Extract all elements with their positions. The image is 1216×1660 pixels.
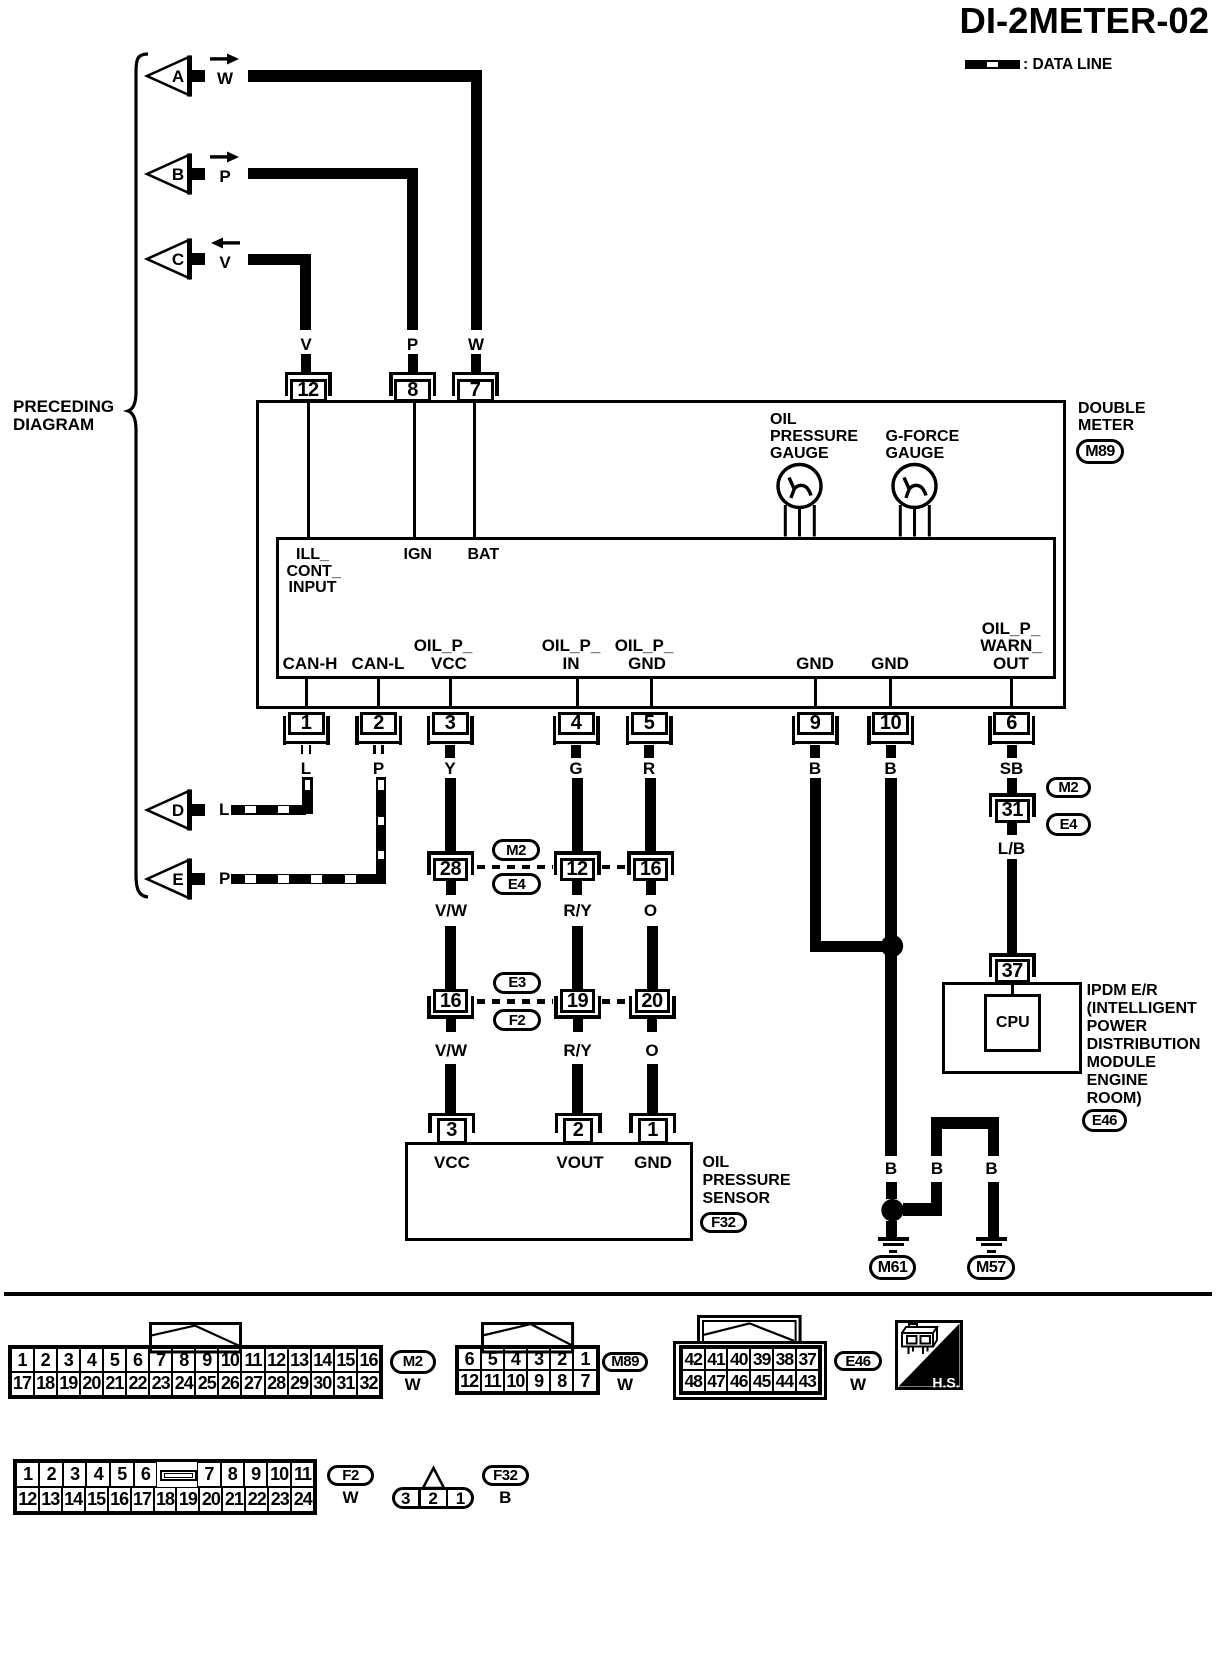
pin 2 of M89 (CAN-L) bbox=[0, 0, 1, 1]
IPDM E/R box E46 bbox=[942, 982, 1081, 1074]
wire color Y bbox=[444, 760, 455, 778]
label BAT bbox=[468, 546, 500, 563]
net OIL_P_GND bbox=[615, 637, 674, 655]
connector C (from preceding diagram) bbox=[145, 236, 209, 282]
title DI-2METER-02 bbox=[960, 1, 1209, 40]
connector face M2 (32 pin) bbox=[11, 1348, 381, 1395]
connector ref E46 bbox=[1082, 1109, 1128, 1132]
wire color B (pin 9) bbox=[809, 760, 821, 778]
wire color L at D bbox=[219, 801, 229, 819]
label PRECEDING DIAGRAM bbox=[13, 398, 114, 416]
wire color V/W bbox=[435, 902, 467, 920]
wire Y stub bbox=[445, 745, 455, 758]
label VOUT bbox=[556, 1154, 603, 1172]
wire V/W to sensor pin 3 bbox=[445, 1064, 456, 1113]
connector color W (M2) bbox=[405, 1376, 421, 1394]
pin 5 of M89 bbox=[0, 0, 1, 1]
svg-text:C: C bbox=[172, 250, 184, 269]
arrow B direction bbox=[210, 151, 240, 163]
pin 9 of M89 bbox=[0, 0, 1, 1]
wire color B bridge bbox=[931, 1160, 943, 1178]
wire color L bbox=[301, 760, 311, 778]
svg-text:E: E bbox=[172, 870, 183, 889]
pin 10 of M89 bbox=[0, 0, 1, 1]
wire color SB bbox=[1000, 760, 1024, 778]
lead IGN bbox=[413, 403, 416, 537]
wire color P bbox=[373, 760, 384, 778]
connector ref F32 bbox=[700, 1212, 748, 1234]
in-line connector pin 19 (E3/F2) bbox=[0, 0, 1, 1]
net GND (pin 9) bbox=[796, 655, 834, 673]
wire O to sensor pin 1 bbox=[647, 1064, 658, 1113]
pin 7 of M89 bbox=[0, 0, 1, 1]
pin 4 of M89 bbox=[0, 0, 1, 1]
wire B stub to junction 2 bbox=[886, 1182, 897, 1199]
wire color P above pin 8 bbox=[407, 336, 418, 354]
in-line connector pin 16 (M2/E4) bbox=[0, 0, 1, 1]
ground ref M61 bbox=[869, 1255, 917, 1280]
wire V stub into pin 12 bbox=[301, 354, 311, 372]
wire G pin4 to connector 12 bbox=[572, 778, 583, 851]
wire V from C to pin 12 bbox=[0, 0, 1, 1]
lead pin10 bbox=[889, 679, 892, 707]
wire R/Y stub below 12 bbox=[572, 881, 582, 895]
connector color W (F2) bbox=[342, 1489, 358, 1507]
wire R/Y to connector 19 (E3/F2) bbox=[572, 926, 583, 990]
wire color B at M57 bbox=[985, 1160, 997, 1178]
sensor pin 2 (F32) bbox=[0, 0, 1, 1]
wire color O bbox=[644, 902, 657, 920]
net OIL_P_VCC bbox=[414, 637, 473, 655]
lead BAT bbox=[473, 403, 476, 537]
connector ref E4 right bbox=[1046, 813, 1092, 836]
connector face E46 outer shell bbox=[673, 1341, 827, 1401]
svg-text:D: D bbox=[172, 801, 184, 820]
wire P from B to pin 8 bbox=[0, 0, 1, 1]
ground symbol M61 bbox=[0, 0, 1, 1]
dashed connector link row 1 left bbox=[0, 0, 1, 1]
wire color W at A bbox=[217, 70, 233, 88]
wire R/Y stub below 19 bbox=[573, 1019, 583, 1033]
connector ref M2 right bbox=[1046, 777, 1092, 799]
wire color W above pin 7 bbox=[468, 336, 484, 354]
connector ref F32 face bbox=[482, 1465, 529, 1486]
legend text bbox=[1023, 57, 1112, 74]
connector pin 37 of E46 bbox=[0, 0, 1, 1]
wire L (data line) pin 1 to D bbox=[0, 0, 1, 1]
wire Y pin3 to connector 28 bbox=[445, 778, 456, 851]
connector color W (M89) bbox=[617, 1376, 633, 1394]
wire color B above junction bbox=[885, 1160, 897, 1178]
double meter M89 inner unit box bbox=[276, 537, 1056, 679]
lead pin5 bbox=[650, 679, 653, 707]
wire L striped stub below pin 1 bbox=[0, 0, 1, 1]
net CAN-H bbox=[283, 655, 338, 673]
connector face E46 (42-48) bbox=[682, 1348, 819, 1392]
arrow C direction bbox=[210, 237, 240, 249]
wire O stub below 16 bbox=[646, 881, 656, 895]
net CAN-L bbox=[352, 655, 405, 673]
wire W stub into pin 7 bbox=[471, 354, 481, 372]
connector color W (E46) bbox=[850, 1376, 866, 1394]
connector color B (F32) bbox=[499, 1489, 511, 1507]
wire B bridge to ground M57 bbox=[0, 0, 1, 1]
wire B stub pin 10 bbox=[886, 745, 896, 758]
lead pin4 bbox=[576, 679, 579, 707]
wire B stub pin 9 bbox=[810, 745, 820, 758]
lead pin2 bbox=[377, 679, 380, 707]
connector ref F2 bbox=[493, 1009, 541, 1031]
connector face F32 (3 pin) bbox=[0, 0, 1, 1]
preceding diagram brace bbox=[120, 48, 160, 908]
dashed connector link row 2 left bbox=[0, 0, 1, 1]
lead 37 to CPU bbox=[1011, 985, 1014, 995]
label OIL PRESSURE GAUGE bbox=[770, 411, 797, 428]
wire SB to connector 31 bbox=[1007, 778, 1017, 793]
in-line connector pin 12 (M2/E4) bbox=[0, 0, 1, 1]
wire B pin 10 down bbox=[885, 778, 897, 1156]
pin 12 of M89 bbox=[0, 0, 1, 1]
wire O stub below 20 bbox=[647, 1019, 657, 1033]
wire B stub to ground M61 bbox=[886, 1221, 897, 1238]
connector A (from preceding diagram) bbox=[145, 53, 209, 99]
connector ref M2 face bbox=[390, 1350, 436, 1374]
connector face M89 (12 pin) bbox=[458, 1348, 597, 1392]
legend data line symbol bbox=[0, 0, 1, 1]
connector B (from preceding diagram) bbox=[145, 151, 209, 197]
net GND (pin 10) bbox=[871, 655, 909, 673]
wire P (data line) pin 2 to E bbox=[0, 0, 1, 1]
double meter M89 outer box bbox=[256, 400, 1066, 709]
lead pin3 bbox=[449, 679, 452, 707]
pin 6 of M89 bbox=[0, 0, 1, 1]
pin 8 of M89 bbox=[0, 0, 1, 1]
in-line connector pin 16 (E3/F2) bbox=[0, 0, 1, 1]
dashed connector link row 1 right bbox=[0, 0, 1, 1]
svg-text:B: B bbox=[172, 165, 184, 184]
in-line connector pin 31 (M2/E4) bbox=[0, 0, 1, 1]
connector D (to preceding diagram) bbox=[145, 787, 209, 833]
wire P striped stub below pin 2 bbox=[0, 0, 1, 1]
junction pins 9/10 bbox=[879, 933, 905, 959]
label IGN bbox=[404, 546, 432, 563]
wire V/W to connector 16 (E3/F2) bbox=[445, 926, 456, 990]
wire color V above pin 12 bbox=[300, 336, 311, 354]
ground symbol M57 bbox=[0, 0, 1, 1]
sensor pin 1 (F32) bbox=[0, 0, 1, 1]
wire color R/Y bbox=[563, 902, 591, 920]
connector ref M89 face bbox=[602, 1352, 648, 1372]
wire W from A to pin 7 bbox=[0, 0, 1, 1]
connector E46 tab bbox=[697, 1315, 802, 1345]
wire O to connector 20 (E3/F2) bbox=[647, 926, 658, 990]
net OIL_P_IN bbox=[542, 637, 601, 655]
connector ref M89 bbox=[1076, 439, 1124, 464]
wire color V at C bbox=[219, 254, 230, 272]
connector face F2 (24 pin) bbox=[16, 1462, 314, 1512]
lead pin6 bbox=[1010, 679, 1013, 707]
pin 1 of M89 (CAN-H) bbox=[0, 0, 1, 1]
wire color P at B bbox=[219, 168, 230, 186]
oil pressure gauge bbox=[774, 460, 826, 540]
wire P stub into pin 8 bbox=[408, 354, 418, 372]
CPU box bbox=[984, 994, 1041, 1051]
in-line connector pin 20 (E3/F2) bbox=[0, 0, 1, 1]
sensor pin 3 (F32) bbox=[0, 0, 1, 1]
wire G stub bbox=[571, 745, 581, 758]
lead ILL_CONT_INPUT bbox=[307, 403, 310, 537]
connector E (to preceding diagram) bbox=[145, 856, 209, 902]
connector M2 tab bbox=[149, 1322, 242, 1352]
ground ref M57 bbox=[967, 1255, 1016, 1280]
wire SB stub pin 6 bbox=[1007, 745, 1017, 758]
wire color R/Y lower bbox=[563, 1042, 591, 1060]
connector ref E46 face bbox=[834, 1351, 882, 1371]
connector ref M2 bbox=[492, 839, 540, 861]
wire R stub bbox=[644, 745, 654, 758]
wire R pin5 to connector 16 bbox=[645, 778, 656, 851]
wire color O lower bbox=[645, 1042, 658, 1060]
label VCC bbox=[434, 1154, 470, 1172]
oil pressure sensor box F32 bbox=[405, 1142, 693, 1241]
wire color L/B bbox=[998, 840, 1025, 858]
wire color G bbox=[569, 760, 582, 778]
pin 3 of M89 bbox=[0, 0, 1, 1]
connector ref E4 bbox=[492, 873, 541, 895]
H.S. mark bbox=[895, 1320, 963, 1390]
net OIL_P_WARN_OUT bbox=[982, 620, 1041, 638]
label OIL PRESSURE SENSOR bbox=[703, 1154, 730, 1171]
wire color R bbox=[643, 760, 655, 778]
wire B pin 9 down and right to junction bbox=[0, 0, 1, 1]
arrow A direction bbox=[210, 53, 240, 65]
label DOUBLE METER bbox=[1078, 400, 1146, 417]
wire R/Y to sensor pin 2 bbox=[572, 1064, 583, 1113]
wire color P at E bbox=[219, 870, 230, 888]
label IPDM E/R bbox=[1087, 982, 1158, 999]
connector ref F2 face bbox=[327, 1465, 373, 1486]
junction to grounds bbox=[880, 1198, 906, 1224]
wire color V/W lower bbox=[435, 1042, 467, 1060]
label GND bbox=[634, 1154, 672, 1172]
separator line bbox=[4, 1292, 1212, 1296]
wire V/W stub below 28 bbox=[446, 881, 456, 895]
connector M89 tab bbox=[481, 1322, 574, 1352]
lead pin1 bbox=[305, 679, 308, 707]
wire V/W stub below 16 bbox=[446, 1019, 456, 1033]
dashed connector link row 2 right bbox=[0, 0, 1, 1]
svg-text:A: A bbox=[172, 67, 184, 86]
svg-text:H.S.: H.S. bbox=[932, 1374, 959, 1390]
lead pin9 bbox=[814, 679, 817, 707]
connector ref E3 bbox=[493, 972, 541, 994]
in-line connector pin 28 (M2/E4) bbox=[0, 0, 1, 1]
label ILL_CONT_INPUT bbox=[296, 546, 329, 563]
label G-FORCE GAUGE bbox=[886, 428, 960, 445]
wire stub below 31 bbox=[1007, 822, 1017, 835]
wire L/B to connector 37 bbox=[1007, 859, 1018, 953]
wire color B (pin 10) bbox=[884, 760, 896, 778]
g-force gauge bbox=[889, 460, 941, 540]
